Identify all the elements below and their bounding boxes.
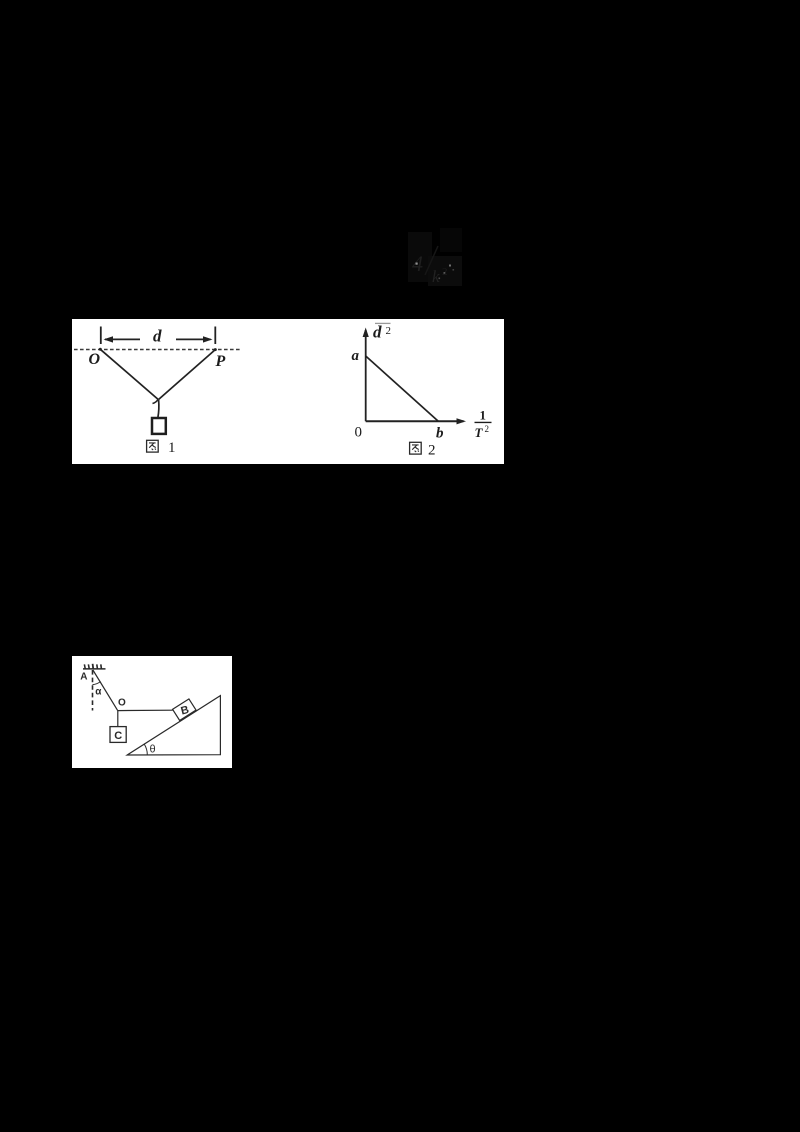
svg-text:θ: θ xyxy=(150,744,156,756)
svg-text:1: 1 xyxy=(480,408,487,423)
svg-text:T: T xyxy=(475,425,484,440)
svg-text:0: 0 xyxy=(355,425,363,441)
svg-text:d: d xyxy=(153,327,162,346)
svg-text:1: 1 xyxy=(168,440,176,456)
svg-text:C: C xyxy=(114,730,122,742)
svg-text:P: P xyxy=(215,353,226,370)
svg-text:a: a xyxy=(352,348,360,364)
svg-text:2: 2 xyxy=(428,443,436,459)
svg-text:A: A xyxy=(80,672,87,683)
svg-text:O: O xyxy=(89,351,101,368)
svg-text:2: 2 xyxy=(485,424,490,434)
svg-text:b: b xyxy=(436,426,444,442)
svg-text:O: O xyxy=(118,698,126,709)
svg-text:α: α xyxy=(95,687,102,698)
svg-text:d: d xyxy=(373,323,382,342)
svg-text:2: 2 xyxy=(386,325,392,337)
svg-text:k: k xyxy=(432,267,440,286)
